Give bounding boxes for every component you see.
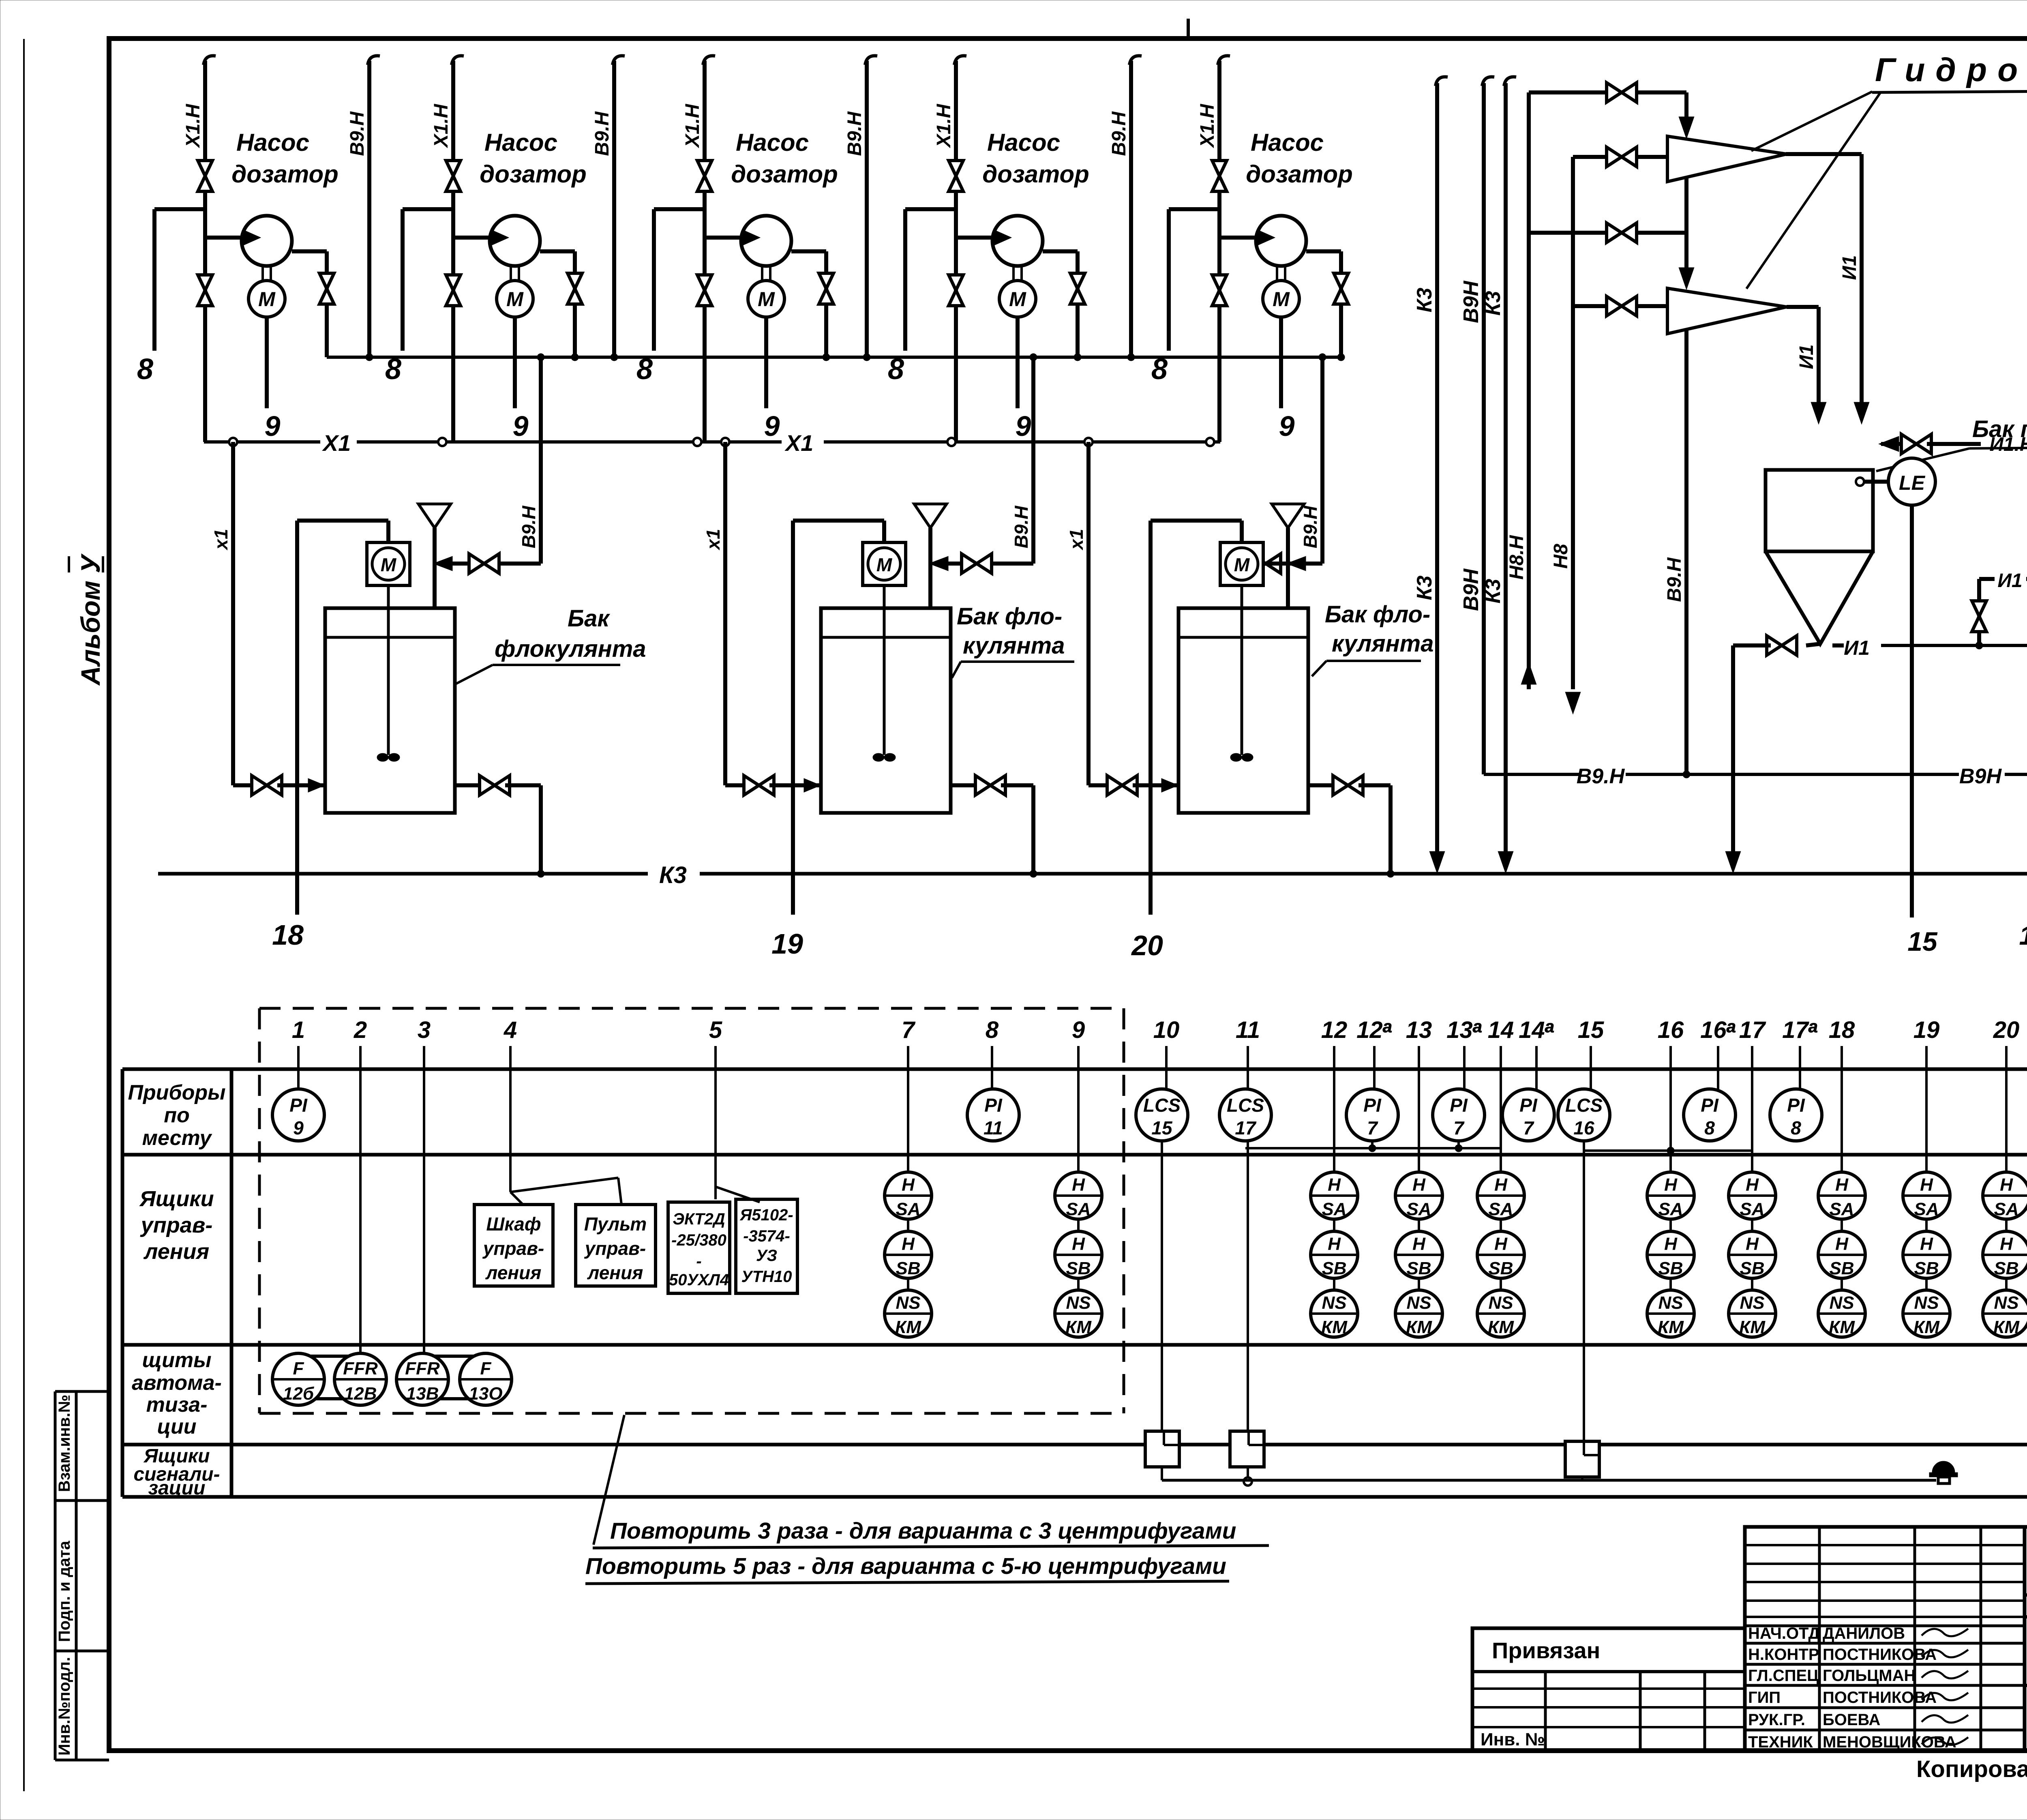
svg-text:по: по (164, 1104, 190, 1127)
unit 4 stream 8 feed line (905, 207, 956, 211)
tank T1 inlet valve x1 (233, 783, 256, 787)
local instrument РI/7 (1346, 1089, 1398, 1141)
unit 2 motor signal wire to 9 (513, 317, 517, 408)
unit 1 motor signal wire to 9 (265, 317, 269, 408)
svg-text:Альбом У: Альбом У (75, 553, 105, 686)
svg-text:Бак: Бак (568, 605, 610, 632)
svg-text:Х1: Х1 (784, 430, 814, 456)
svg-text:УЗ: УЗ (756, 1247, 777, 1265)
svg-text:SВ: SВ (1488, 1258, 1513, 1278)
control stack H/SA H/SB NS/KM at x=4121 (1647, 1172, 1694, 1219)
svg-text:7: 7 (902, 1017, 916, 1043)
svg-text:9: 9 (265, 410, 281, 442)
tank T3 feed valve B9.H (1279, 562, 1322, 566)
instrument connector wire LCS17-14 (1371, 1141, 1373, 1148)
H8 line (1571, 157, 1575, 689)
unit 3 valve on X1.H line (697, 161, 712, 176)
leader 5 to boxes (716, 1187, 760, 1202)
unit 2 outlet valve (568, 273, 582, 289)
unit 4 pump inlet wire (956, 236, 1001, 240)
pump P5 (насос дозатор) (1256, 216, 1306, 266)
svg-text:LЕ: LЕ (1899, 472, 1926, 494)
svg-text:NS: NS (1406, 1293, 1431, 1313)
signal wire to bell (1162, 1479, 1936, 1482)
svg-text:Н: Н (902, 1175, 915, 1195)
feed valve D (1607, 296, 1622, 316)
svg-text:В9.Н: В9.Н (591, 111, 613, 156)
unit 2 pump outlet wire (540, 249, 575, 253)
motor M5 (1263, 281, 1299, 317)
svg-text:3: 3 (418, 1017, 431, 1043)
svg-text:-25/380: -25/380 (671, 1231, 726, 1249)
tank T1 (бак флокулянта) (325, 608, 455, 813)
svg-text:Н: Н (1412, 1175, 1426, 1195)
tank T3 agitator shaft (1241, 585, 1243, 755)
svg-text:кулянта: кулянта (1332, 630, 1433, 657)
svg-text:КМ: КМ (1993, 1317, 2020, 1337)
svg-text:SА: SА (1406, 1199, 1431, 1219)
svg-text:20: 20 (1131, 930, 1163, 961)
tank T2 inlet valve x1 (725, 783, 748, 787)
unit 5 outlet valve (1334, 273, 1348, 289)
tank T2 drain valve (951, 783, 980, 787)
I1.H return wire (1881, 437, 1898, 450)
svg-text:КМ: КМ (1829, 1317, 1855, 1337)
svg-text:SА: SА (1740, 1199, 1764, 1219)
svg-text:SА: SА (1322, 1199, 1346, 1219)
local instrument РI/11 (967, 1089, 1019, 1141)
unit 4 motor signal wire to 9 (1016, 317, 1020, 408)
svg-text:К3: К3 (1481, 291, 1505, 315)
svg-text:19: 19 (771, 928, 803, 960)
svg-text:SА: SА (896, 1199, 920, 1219)
svg-text:И1: И1 (1839, 255, 1860, 280)
svg-text:-: - (696, 1252, 701, 1270)
tank T1 agitator drive box (367, 542, 410, 585)
svg-text:дозатор: дозатор (982, 161, 1089, 188)
svg-text:11: 11 (1236, 1017, 1260, 1043)
tank T3 funnel (1272, 504, 1304, 528)
collector wire (y=881) (327, 356, 1341, 359)
svg-text:РI: РI (984, 1095, 1003, 1116)
svg-text:Н: Н (1920, 1175, 1933, 1195)
svg-text:12В: 12В (344, 1384, 377, 1404)
svg-text:Бак фло-: Бак фло- (1325, 601, 1430, 628)
svg-text:КМ: КМ (1739, 1317, 1766, 1337)
svg-text:9: 9 (764, 410, 780, 442)
svg-text:18: 18 (1829, 1017, 1855, 1043)
svg-text:М: М (876, 554, 893, 575)
local instrument РI/7 (1433, 1089, 1485, 1141)
svg-text:Насос: Насос (484, 129, 557, 156)
svg-text:7: 7 (1523, 1117, 1534, 1138)
svg-text:Пульт: Пульт (584, 1213, 647, 1235)
level element LE (1888, 458, 1935, 505)
junction dots on collector (537, 354, 544, 361)
local instrument LСS/15 (1136, 1089, 1188, 1141)
K3 header line right (1504, 77, 1516, 86)
unit 4 pump inlet arrow (995, 231, 1009, 244)
svg-text:КМ: КМ (895, 1317, 921, 1337)
svg-text:щиты: щиты (142, 1348, 211, 1372)
svg-text:ПОСТНИКОВА: ПОСТНИКОВА (1823, 1646, 1937, 1664)
panel instrument F/12б (272, 1353, 324, 1405)
svg-text:9: 9 (1279, 410, 1295, 442)
sand tank funnel (1766, 551, 1873, 644)
B9.H riser at cyclones (1684, 92, 1688, 134)
tank T3 (бак флокулянта) (1178, 608, 1308, 813)
svg-text:8: 8 (1704, 1117, 1715, 1138)
X1 collector wire (204, 440, 320, 444)
svg-text:Х1: Х1 (322, 430, 351, 456)
dosing pump unit 4: X1.H supply line (954, 56, 966, 65)
title block signature grid (1745, 1527, 2025, 1751)
pump P3 (насос дозатор) (741, 216, 791, 266)
unit 5 pump outlet wire (1306, 249, 1341, 253)
svg-text:Х1.Н: Х1.Н (182, 103, 204, 148)
tank T2 drive feed wire (793, 519, 884, 523)
svg-text:ГИП: ГИП (1748, 1689, 1781, 1706)
control stack H/SA H/SB NS/KM at x=3291 (1311, 1172, 1358, 1219)
svg-text:Инв. №: Инв. № (1481, 1730, 1545, 1749)
svg-text:В9.Н: В9.Н (1300, 506, 1321, 549)
svg-text:NS: NS (1322, 1293, 1346, 1313)
dosing pump unit 3: X1.H supply line (703, 56, 715, 65)
tank T1 drive feed wire (297, 519, 388, 523)
svg-text:ТЕХНИК: ТЕХНИК (1748, 1733, 1813, 1751)
signal box 10 (1145, 1431, 1179, 1467)
pump NA suction riser (1977, 579, 1981, 645)
tank T2 B9.H feed riser (1031, 357, 1035, 564)
tank T3 B9.H feed riser (1320, 357, 1324, 564)
svg-text:М: М (758, 288, 775, 311)
svg-text:Н: Н (1920, 1234, 1933, 1254)
svg-text:РI: РI (289, 1095, 308, 1116)
unit 1 pump shaft (261, 266, 264, 281)
svg-text:К3: К3 (1413, 575, 1436, 600)
svg-text:NS: NS (1914, 1293, 1939, 1313)
svg-text:Приборы: Приборы (128, 1081, 225, 1104)
svg-text:19: 19 (1913, 1017, 1940, 1043)
svg-text:NS: NS (1658, 1293, 1683, 1313)
svg-text:МЕНОВЩИКОВА: МЕНОВЩИКОВА (1823, 1733, 1956, 1751)
unit 2 pump inlet arrow (492, 231, 507, 244)
unit 4 pump shaft (1012, 266, 1015, 281)
unit 5 stream 8 feed line (1169, 207, 1219, 211)
feed valve C (1607, 223, 1622, 242)
pump P1 (насос дозатор) (242, 216, 292, 266)
svg-text:15: 15 (1907, 926, 1938, 956)
svg-text:LСS: LСS (1565, 1095, 1603, 1116)
svg-text:9: 9 (1072, 1017, 1085, 1043)
I1 bottom wire (1731, 645, 1735, 855)
tank T2 drain wire to K3 (1031, 785, 1035, 874)
instrument table grid (122, 1068, 2027, 1071)
svg-text:Инв.№подл.: Инв.№подл. (56, 1657, 73, 1756)
svg-text:F: F (480, 1359, 492, 1378)
svg-text:5: 5 (709, 1017, 722, 1043)
svg-text:7: 7 (1367, 1117, 1378, 1138)
H8.H line (1527, 92, 1531, 689)
svg-text:Повторить 5 раз - для вариант: Повторить 5 раз - для варианта с 5-ю цен… (585, 1553, 1226, 1579)
motor M4 (999, 281, 1036, 317)
svg-text:РI: РI (1450, 1095, 1468, 1116)
local instrument РI/9 (272, 1089, 324, 1141)
hydrocyclone 2 (1667, 288, 1787, 334)
tank T1 agitator shaft (387, 585, 390, 755)
unit 4 pump outlet wire (1043, 249, 1078, 253)
title block Привязан box (1472, 1628, 1745, 1751)
svg-text:Шкаф: Шкаф (486, 1213, 541, 1235)
pump P2 (насос дозатор) (490, 216, 540, 266)
svg-text:И1.Н: И1.Н (1989, 434, 2027, 455)
svg-text:12: 12 (1321, 1017, 1348, 1043)
svg-text:Бак фло-: Бак фло- (957, 603, 1062, 630)
tank T2 x1 riser wire (723, 442, 727, 785)
svg-text:SА: SА (1658, 1199, 1683, 1219)
hydrocyclone 1 (1667, 136, 1787, 182)
svg-text:NS: NS (896, 1293, 920, 1313)
svg-text:Гидроциклон: Гидроциклон (1875, 51, 2027, 88)
feed valve B (1607, 147, 1622, 167)
X1 junction circles (229, 438, 237, 446)
svg-text:4: 4 (504, 1017, 517, 1043)
B9.H header line 4 (1129, 56, 1142, 65)
tank T3 drive feed wire (1151, 519, 1242, 523)
local instrument LСS/17 (1219, 1089, 1271, 1141)
svg-text:В9Н: В9Н (1959, 765, 2002, 788)
local instrument РI/7 (1502, 1089, 1554, 1141)
tank T1 x1 riser wire (231, 442, 235, 785)
svg-text:ПОСТНИКОВА: ПОСТНИКОВА (1823, 1689, 1937, 1706)
box Я5102 (736, 1199, 797, 1293)
tank T2 agitator drive box (863, 542, 906, 585)
svg-text:Насос: Насос (736, 129, 809, 156)
unit 5 valve on X1.H line (1212, 161, 1227, 176)
svg-text:Х1.Н: Х1.Н (682, 103, 703, 148)
svg-text:SВ: SВ (1740, 1258, 1764, 1278)
svg-text:15: 15 (1151, 1117, 1173, 1138)
svg-text:17: 17 (1739, 1017, 1766, 1043)
svg-text:М: М (1234, 554, 1250, 575)
svg-text:Привязан: Привязан (1492, 1638, 1600, 1663)
box ЭКТ2Д (668, 1202, 730, 1293)
svg-text:флокулянта: флокулянта (495, 636, 646, 662)
tank T2 agitator impeller (873, 753, 884, 761)
unit 5 pump shaft (1276, 266, 1278, 281)
svg-text:18: 18 (272, 919, 304, 951)
control stack H/SA H/SB NS/KM at x=4949 (1983, 1172, 2027, 1219)
tank T2 feed valve B9.H (990, 562, 1033, 566)
unit 2 stream 8 feed line (403, 207, 453, 211)
svg-text:Н: Н (1664, 1175, 1678, 1195)
tank T1 B9.H feed riser (539, 357, 543, 564)
svg-text:9: 9 (1016, 410, 1031, 442)
control stack H/SA H/SB NS/KM at x=4543 (1818, 1172, 1865, 1219)
svg-text:NS: NS (1994, 1293, 2018, 1313)
svg-text:РI: РI (1519, 1095, 1538, 1116)
unit 1 pump inlet wire (205, 236, 251, 240)
unit 3 suction valve (697, 275, 712, 290)
svg-text:SА: SА (1914, 1199, 1939, 1219)
svg-text:ГОЛЬЦМАН: ГОЛЬЦМАН (1823, 1667, 1916, 1685)
svg-text:дозатор: дозатор (480, 161, 587, 188)
svg-text:8: 8 (986, 1017, 999, 1043)
cyclone feed wire C (1529, 231, 1686, 235)
svg-text:15: 15 (1578, 1017, 1604, 1043)
tank T1 funnel (418, 504, 451, 528)
svg-text:Н: Н (1494, 1175, 1508, 1195)
svg-text:SА: SА (1829, 1199, 1854, 1219)
svg-text:КМ: КМ (1913, 1317, 1940, 1337)
unit 2 valve on X1.H line (446, 161, 461, 176)
svg-text:М: М (506, 288, 524, 311)
svg-text:тиза-: тиза- (146, 1393, 208, 1417)
svg-text:дозатор: дозатор (231, 161, 339, 188)
svg-text:И1: И1 (1997, 570, 2022, 592)
svg-text:12б: 12б (283, 1384, 315, 1404)
svg-text:В9.Н: В9.Н (518, 506, 539, 549)
svg-text:1: 1 (292, 1017, 305, 1043)
sand tank bottom valve (1806, 644, 1820, 645)
tank T2 agitator shaft (883, 585, 886, 755)
svg-text:Н8: Н8 (1550, 544, 1572, 569)
K3 bus wire (158, 872, 648, 876)
svg-text:Ящики: Ящики (139, 1187, 214, 1211)
B9.H header line 3 (865, 56, 877, 65)
dosing pump unit 1: X1.H supply line (204, 56, 216, 65)
motor M2 (497, 281, 533, 317)
svg-text:Н: Н (2000, 1175, 2013, 1195)
signal box 15 (1565, 1441, 1599, 1477)
B9.H header line 2 (613, 56, 625, 65)
svg-text:NS: NS (1488, 1293, 1513, 1313)
svg-text:NS: NS (1066, 1293, 1091, 1313)
control stack H/SA H/SB NS/KM at x=2660 (1055, 1172, 1102, 1219)
unit 3 pump outlet wire (791, 249, 826, 253)
note leader (594, 1415, 624, 1545)
svg-text:8: 8 (1791, 1117, 1801, 1138)
svg-text:М: М (1009, 288, 1026, 311)
svg-text:SВ: SВ (1066, 1258, 1091, 1278)
tank T3 x1 riser wire (1086, 442, 1091, 785)
tank T3 agitator impeller (1230, 753, 1242, 761)
svg-text:14: 14 (1488, 1017, 1514, 1043)
margin stamp boxes (54, 1391, 57, 1760)
tank T3 inlet valve x1 (1088, 783, 1112, 787)
svg-text:SВ: SВ (1322, 1258, 1346, 1278)
sheet left trim line (23, 39, 25, 1791)
pump P4 (насос дозатор) (992, 216, 1043, 266)
unit 4 valve on X1.H line (949, 161, 963, 176)
svg-text:Х1.Н: Х1.Н (933, 103, 955, 148)
svg-text:8: 8 (137, 353, 153, 386)
svg-text:Н: Н (1072, 1175, 1085, 1195)
sand pulp tank (бак песчаной пульпы) (1766, 470, 1873, 551)
cyclone 1 outlet wire I1 (1786, 152, 1862, 156)
svg-text:Н: Н (1664, 1234, 1678, 1254)
row3 bracket wire (360, 1343, 486, 1346)
svg-text:В9.Н: В9.Н (347, 111, 368, 156)
svg-text:11: 11 (984, 1117, 1003, 1138)
svg-text:9: 9 (513, 410, 529, 442)
unit 5 suction valve (1212, 275, 1227, 290)
svg-text:9: 9 (293, 1117, 304, 1138)
tank T1 feed valve B9.H (498, 562, 541, 566)
unit 5 motor signal wire to 9 (1279, 317, 1283, 408)
svg-text:х1: х1 (703, 529, 724, 551)
svg-text:управ-: управ- (584, 1238, 646, 1259)
tank T1 agitator impeller (377, 753, 388, 761)
svg-text:РУК.ГР.: РУК.ГР. (1748, 1711, 1805, 1729)
svg-text:13: 13 (1406, 1017, 1432, 1043)
svg-text:дозатор: дозатор (1246, 161, 1353, 188)
svg-text:NS: NS (1740, 1293, 1764, 1313)
tank T1 left support wire (295, 521, 299, 915)
svg-text:Н: Н (1412, 1234, 1426, 1254)
svg-text:В9.Н: В9.Н (844, 111, 866, 156)
svg-text:17: 17 (1235, 1117, 1257, 1138)
local instrument РI/8 (1684, 1089, 1736, 1141)
svg-text:Н: Н (1746, 1175, 1759, 1195)
signal box 11 (1230, 1431, 1264, 1467)
svg-text:Копировал:: Копировал: (1916, 1756, 2027, 1782)
svg-text:10: 10 (1153, 1017, 1180, 1043)
svg-text:7: 7 (1453, 1117, 1465, 1138)
unit 1 pump inlet arrow (244, 231, 259, 244)
svg-text:LСS: LСS (1227, 1095, 1264, 1116)
local instrument LСS/16 (1558, 1089, 1610, 1141)
svg-text:Н: Н (1328, 1175, 1341, 1195)
unit 2 pump shaft (510, 266, 512, 281)
svg-text:ГЛ.СПЕЦ: ГЛ.СПЕЦ (1748, 1667, 1819, 1685)
tank T3 left support wire (1148, 521, 1153, 915)
svg-text:Н: Н (1072, 1234, 1085, 1254)
tank T3 drain wire to K3 (1388, 785, 1393, 874)
svg-text:В9.Н: В9.Н (1108, 111, 1130, 156)
svg-text:ления: ления (587, 1262, 643, 1283)
svg-text:В9Н: В9Н (1459, 281, 1483, 323)
B9H header line (1482, 77, 1494, 86)
svg-text:NS: NS (1829, 1293, 1854, 1313)
unit 1 valve on X1.H line (198, 161, 212, 176)
svg-text:Взам.инв.№: Взам.инв.№ (56, 1395, 73, 1492)
svg-text:13О: 13О (469, 1384, 502, 1404)
control stack H/SA H/SB NS/KM at x=3702 (1477, 1172, 1524, 1219)
svg-text:Подп. и дата: Подп. и дата (56, 1541, 73, 1642)
K3 header line left (1436, 77, 1448, 86)
svg-text:50УХЛ4: 50УХЛ4 (669, 1271, 729, 1289)
svg-text:Насос: Насос (987, 129, 1060, 156)
control stack H/SA H/SB NS/KM at x=4752 (1903, 1172, 1950, 1219)
svg-text:К3: К3 (659, 862, 687, 888)
top frame tick mark A (1187, 19, 1190, 39)
cyclone feed wire D (1573, 304, 1667, 308)
svg-text:В9.Н: В9.Н (1664, 557, 1685, 602)
svg-text:КМ: КМ (1321, 1317, 1348, 1337)
svg-text:х1: х1 (210, 529, 231, 551)
svg-text:Н: Н (1746, 1234, 1759, 1254)
svg-text:В9Н: В9Н (1459, 568, 1483, 611)
svg-text:зации: зации (148, 1477, 206, 1499)
svg-text:Н: Н (1328, 1234, 1341, 1254)
svg-text:SВ: SВ (1406, 1258, 1431, 1278)
B9.H header line 1 (368, 56, 380, 65)
svg-text:20: 20 (1993, 1017, 2020, 1043)
svg-text:FFR: FFR (405, 1359, 440, 1378)
cyclone label leaders (1751, 92, 1872, 151)
svg-text:БОЕВА: БОЕВА (1823, 1711, 1880, 1729)
